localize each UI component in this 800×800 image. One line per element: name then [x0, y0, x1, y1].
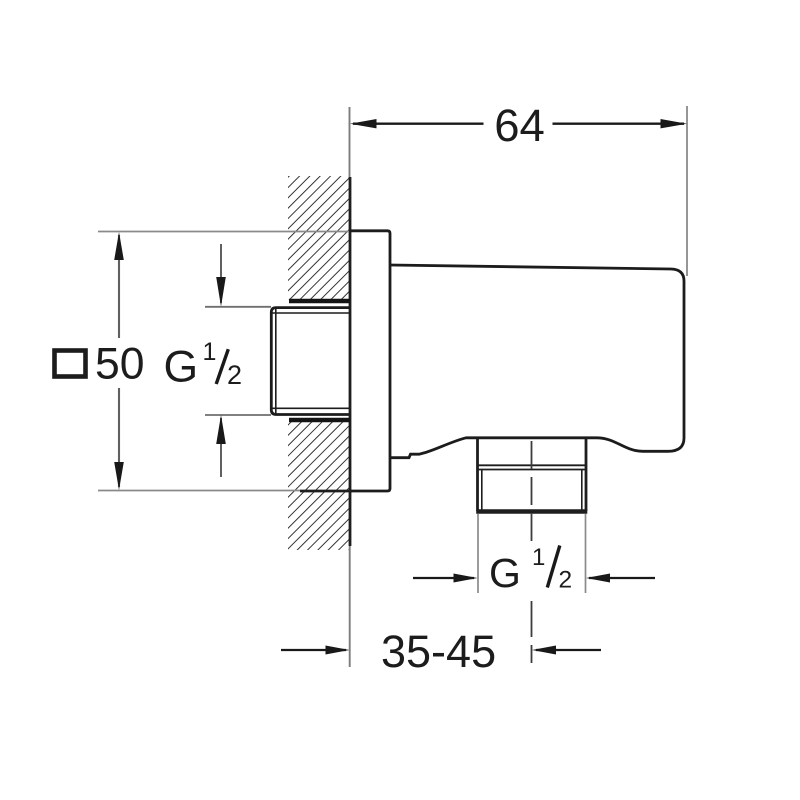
dimension 64: dimension line right segment [553, 123, 685, 125]
inlet union (square G1/2 thread) outline [271, 308, 350, 415]
wall surface line, upper extension (also 64-dim extension) [349, 107, 351, 177]
dimension 35-45: right leader line [536, 649, 601, 651]
dimension 35-45: right-pointing arrowhead at wall [326, 646, 350, 655]
svg-text:50: 50 [95, 340, 145, 389]
inlet thread dimension: lower extension line [205, 414, 271, 416]
inlet thread dimension: upper leader line [220, 244, 222, 303]
outlet thread dimension: right-pointing arrowhead [454, 574, 478, 583]
outlet centerline (dashed), lower part [531, 601, 533, 663]
outlet nut top edge (double line) [478, 465, 587, 469]
dimension 50: bottom arrowhead [114, 462, 124, 490]
outlet nut inner side lines [482, 470, 582, 512]
dimension 50: dimension line upper segment [118, 235, 120, 338]
wall opening edge, top [289, 299, 350, 304]
wall flange plate outline [350, 231, 390, 491]
svg-text:64: 64 [494, 100, 545, 151]
outlet thread dimension: right extension line [585, 514, 587, 593]
outlet stub left side [476, 438, 479, 511]
outlet nut bottom edge (thick) [476, 509, 587, 514]
inlet thread dimension: up arrowhead [216, 415, 226, 444]
outlet label fraction slash [547, 546, 560, 588]
wall opening edge, bottom [289, 418, 350, 423]
outlet centerline (dashed), upper part [531, 441, 533, 545]
square-section symbol [55, 351, 86, 377]
wall section hatch, lower part [288, 422, 349, 550]
dimension 50: dimension line lower segment [118, 388, 120, 487]
dimension 64: left arrowhead [350, 119, 377, 128]
svg-text:1: 1 [532, 544, 545, 571]
svg-text:35-45: 35-45 [381, 626, 496, 677]
svg-text:2: 2 [559, 567, 573, 594]
svg-text:G: G [489, 550, 521, 596]
outlet thread dimension: left-pointing arrowhead [586, 574, 610, 583]
outlet thread dimension: left leader line [413, 577, 474, 579]
inlet union inner bottom line [273, 407, 351, 409]
inlet label fraction slash [216, 349, 228, 384]
dimension 50: top extension line [98, 231, 349, 233]
outlet thread dimension: left extension line [477, 514, 479, 593]
dimension 35-45: left leader line [281, 649, 346, 651]
dimension 64: right extension line [686, 106, 688, 276]
dimension 50: bottom extension line [98, 490, 300, 492]
svg-text:2: 2 [227, 360, 242, 390]
inlet thread dimension: down arrowhead [216, 277, 226, 307]
inlet union inner top line [273, 312, 351, 314]
svg-text:1: 1 [203, 338, 217, 366]
dimension 50: top arrowhead [114, 232, 124, 260]
wall surface line, main edge [349, 177, 352, 546]
flange bottom edge across hatch [300, 490, 352, 493]
dimension 64: right arrowhead [661, 119, 688, 128]
inlet thread dimension: upper extension line [205, 306, 271, 308]
elbow body outline [390, 265, 684, 458]
svg-text:G: G [164, 343, 199, 392]
outlet thread dimension: right leader line [589, 577, 655, 579]
inlet thread dimension: lower leader line [220, 418, 222, 477]
dimension 64: dimension line left segment [353, 123, 484, 125]
inlet union inner left line [275, 309, 277, 414]
wall section hatch, upper part [288, 176, 349, 300]
outlet stub right side [585, 438, 588, 511]
dimension 35-45: left-pointing arrowhead at centerline [532, 646, 556, 655]
wall surface line, lower extension (also 35-45-dim extension) [349, 546, 351, 667]
